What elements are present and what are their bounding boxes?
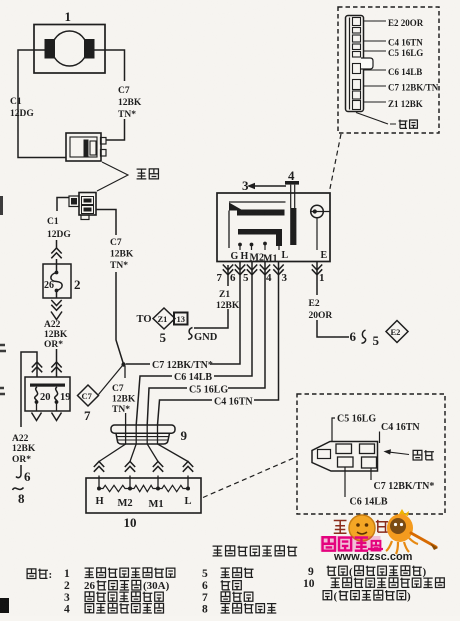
lead from diamond to junction [99, 366, 123, 395]
chevrons right branch [51, 362, 61, 372]
terminal dot x=158 [156, 487, 160, 491]
watermark face [349, 515, 375, 541]
wire stub to splice 6 [16, 465, 21, 478]
dashed detail box (resistor connector) [297, 394, 445, 514]
watermark weikuyixia [321, 536, 384, 552]
dashed lead to detail box [203, 457, 296, 498]
lead line E2 20OR [364, 20, 386, 22]
wire stub x=158 [157, 476, 159, 488]
bus bar [30, 384, 65, 387]
connector latch tab [361, 58, 373, 69]
switch box [217, 193, 330, 262]
switch connector body [346, 16, 364, 112]
wire E / E2 20OR [317, 262, 349, 338]
wire1 through grommet [99, 366, 126, 462]
chevrons above resistor x=158 [153, 462, 163, 472]
lead line C5 16LG [364, 50, 386, 52]
M1 contact [263, 242, 267, 246]
chevrons below switch pin x=278.5 [273, 265, 283, 275]
wire Z1 to ground [194, 265, 228, 328]
wire C7 12BK/TN from motor to connector [93, 50, 125, 140]
terminal 20 squiggle [35, 387, 38, 402]
chevrons left branch [32, 362, 42, 372]
diamond E2 [386, 321, 408, 343]
terminal dot x=99 [97, 487, 101, 491]
L stub [278, 246, 280, 250]
lead C6 14LB [344, 467, 346, 497]
connector upper half [66, 133, 101, 161]
chevrons above resistor x=188 [183, 462, 193, 472]
terminal 19 squiggle [55, 387, 58, 402]
wire C1 12DG from motor to connector [18, 50, 66, 158]
arrow for 3 [254, 185, 286, 187]
junction node C7 [121, 362, 125, 366]
chevrons below fuse [51, 300, 61, 310]
wire C1 from connector to fuse [57, 198, 70, 249]
break tilde [13, 488, 24, 491]
panel connector box 20/19 [25, 377, 70, 411]
wire L / C4 16TN run [158, 262, 279, 426]
wire stub x=99 [98, 476, 100, 488]
label black (hei se) [137, 169, 147, 179]
lead line Z1 12BK [364, 101, 386, 103]
wire stub x=188 [187, 476, 189, 488]
resistor element M1-L [158, 485, 188, 491]
legend 10 cont [323, 591, 332, 600]
lead line C7 12BK/TN [364, 85, 386, 87]
chevrons below switch pin x=240 [235, 265, 245, 275]
title heater system circuit [213, 546, 223, 556]
chevrons above resistor x=130 [125, 462, 135, 472]
resistor box 10 [86, 478, 201, 513]
wire A22 to panel box [56, 349, 58, 377]
G vertical [228, 211, 230, 249]
ground squiggle [188, 328, 193, 340]
terminal dot x=188 [186, 487, 190, 491]
lead C5 16LG [332, 418, 335, 442]
wire3 through grommet [147, 425, 158, 462]
wire stub x=130 [129, 476, 131, 488]
wire M1 / C5 16LG run [147, 262, 265, 426]
arrow black [387, 452, 409, 455]
chevrons above resistor x=99 [94, 462, 104, 472]
callout lines to black label [97, 162, 128, 191]
diamond C7 (7) [78, 385, 99, 406]
wiper bar upper [237, 210, 285, 216]
chevrons below switch pin x=252 [247, 265, 257, 275]
chevrons below switch pin x=317 [312, 265, 322, 275]
pin cavity C5 [336, 444, 352, 454]
wire H / C7 12BK-TN* run [126, 262, 240, 365]
wire2 through grommet [130, 425, 136, 462]
edge artifact 2 [0, 345, 6, 394]
diamond Z1 [153, 308, 175, 329]
wire branch over the top [21, 352, 37, 427]
M2 contact [250, 243, 254, 247]
dashed lead to switch [330, 134, 342, 191]
grommet 9 [111, 425, 175, 433]
box 13 [174, 313, 188, 325]
blower motor M1 body [34, 25, 105, 74]
squiggle E2 [362, 330, 366, 343]
edge artifact 1 [0, 196, 3, 215]
legend caption tu-zhu [27, 569, 36, 579]
resistor element M2-M1 [130, 485, 158, 491]
arrow below 20 [32, 413, 42, 421]
pin cavity C6 [338, 457, 354, 467]
contact rail [229, 201, 286, 203]
pin cavity C7 [362, 457, 377, 468]
resistor connector outline [312, 442, 378, 472]
wiper wedge [229, 203, 243, 211]
black label lead [356, 113, 396, 125]
paper noise overlay [0, 0, 1, 1]
wire M2 / C6 14LB run [136, 262, 252, 426]
resistor element H-M2 [99, 485, 130, 491]
H contact [238, 243, 242, 247]
watermark mascot [399, 509, 409, 516]
resistor connector key [318, 450, 331, 459]
connector pin cavities [353, 18, 361, 26]
label black (top box) [399, 120, 408, 129]
dashed detail box (switch connector) [338, 7, 439, 133]
chevrons below switch pin x=228 [223, 265, 233, 275]
motor brush right [84, 39, 95, 59]
arrow below 19 [52, 413, 62, 421]
lead line C4 16TN [364, 40, 386, 42]
wire C7 12BK/TN branch [96, 210, 123, 364]
lead C7 12BK/TN* [370, 468, 372, 480]
connector lower half [79, 193, 96, 216]
chevrons above fuse [51, 248, 61, 258]
lead C4 16TN [379, 432, 381, 444]
corner blob [0, 598, 9, 613]
lead line C6 14LB [364, 69, 386, 71]
watermark text zhao-pian [334, 520, 388, 533]
label black (bottom box) [413, 450, 422, 460]
fuse 26 box [43, 264, 71, 298]
motor brush left [45, 39, 56, 59]
terminal dot x=130 [128, 487, 132, 491]
pin cavity C4 [360, 444, 375, 454]
fuse element [56, 259, 58, 298]
screw shaft [290, 208, 296, 245]
chevrons below switch pin x=265 [260, 265, 270, 275]
slide screw 4 [285, 181, 299, 185]
wire4 through grommet [158, 425, 189, 462]
wiper bar lower [238, 229, 282, 246]
illumination lamp [311, 205, 324, 218]
